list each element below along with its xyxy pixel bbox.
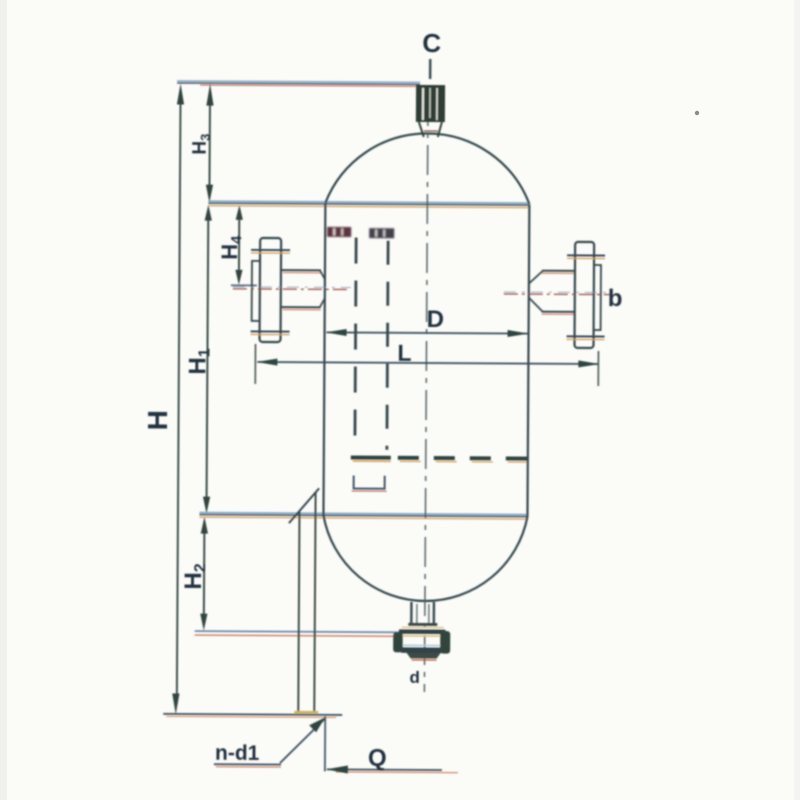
right nozzle wall chamfers [529, 271, 543, 284]
Q arrowhead [326, 765, 348, 773]
Q extension vertical [324, 716, 326, 771]
leader n-d1 line [280, 718, 325, 763]
L extension line left [254, 344, 256, 384]
Q dimension line [327, 768, 442, 771]
leader arrowhead [309, 717, 325, 732]
dimension D line [327, 332, 528, 333]
bottom tangent extension line [199, 513, 527, 515]
H4 bottom extension tick [231, 284, 257, 286]
dip tube U-bend bottom [351, 456, 391, 460]
nozzle C neck [419, 122, 424, 137]
svg-text:d: d [409, 668, 420, 687]
svg-text:C: C [422, 28, 441, 58]
support leg right line [314, 492, 315, 713]
support leg top diagonal [289, 488, 319, 523]
left scan edge band [0, 0, 7, 800]
L extension line right [597, 351, 599, 386]
support leg left line [298, 511, 299, 713]
left nozzle bolt tick top [251, 249, 290, 251]
left nozzle centerline [233, 288, 351, 291]
vessel centerline [424, 96, 428, 692]
H bottom arrow [172, 693, 179, 714]
top dome head [325, 133, 529, 204]
right nozzle flange plate [574, 242, 594, 348]
svg-text:Q: Q [368, 745, 387, 772]
right scan edge band [794, 0, 800, 800]
centerline tick below C [429, 59, 432, 79]
left nozzle a: pipe [281, 269, 321, 271]
dimension line H4 segment (nozzle height) [238, 211, 240, 278]
dimension L line [257, 362, 598, 364]
ground baseline [163, 714, 342, 715]
left nozzle hub [252, 261, 260, 321]
top tangent extension line [208, 201, 529, 203]
internal outlet text blob right [369, 228, 394, 238]
dimension line H3 segment [208, 94, 211, 196]
dip tube dashed left line [355, 238, 356, 452]
n-d1 underline [214, 763, 281, 765]
dimension line H (vertical, far left) [177, 93, 181, 703]
dimension line H2 segment [203, 523, 206, 625]
right nozzle bolt tick top [567, 254, 605, 256]
top extension line [177, 81, 420, 82]
left nozzle wall chamfers [320, 270, 325, 279]
svg-text:D: D [427, 306, 445, 333]
right nozzle centerline [504, 293, 613, 296]
H top arrow [177, 83, 184, 104]
bottom elliptical head [323, 515, 528, 601]
left nozzle flange plate [260, 238, 282, 342]
svg-text:b: b [608, 285, 623, 312]
bottom nozzle flange stack [408, 623, 437, 626]
bottom flange extension line [195, 631, 399, 632]
vessel right wall [527, 205, 529, 517]
dip tube dashed right line [387, 241, 388, 450]
right nozzle b: pipe [542, 270, 575, 272]
vortex breaker box [354, 476, 385, 489]
bottom nozzle d neck [410, 602, 413, 624]
nozzle C: top flange block [416, 85, 445, 122]
vessel left wall [323, 203, 325, 515]
svg-text:H: H [142, 410, 173, 430]
dimension line H1 segment [207, 211, 209, 507]
scan speck top right [695, 111, 699, 115]
svg-text:n-d1: n-d1 [215, 742, 260, 765]
svg-text:L: L [397, 340, 411, 366]
left nozzle bolt tick bottom [251, 330, 290, 332]
right nozzle bolt tick bottom [567, 335, 605, 337]
leg base plate [294, 711, 318, 714]
internal level dashed line [398, 456, 527, 461]
right nozzle raised face [594, 265, 601, 330]
internal inlet text blob left [327, 227, 351, 237]
